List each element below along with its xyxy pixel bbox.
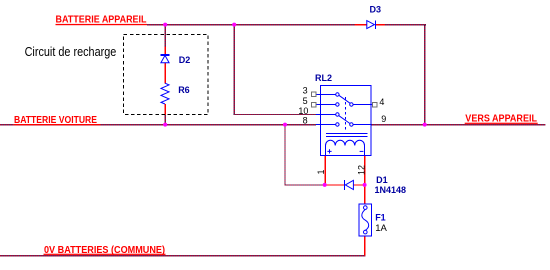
- svg-text:8: 8: [303, 115, 308, 125]
- relay pin 4 contact line and square: [350, 103, 372, 106]
- wire bottom net 0V BATTERIES: left edge to fuse: [0, 255, 365, 256]
- relay pin 5 line and contact: [316, 103, 339, 106]
- diode D3: [367, 20, 376, 28]
- svg-text:D2: D2: [179, 55, 191, 65]
- wire stub red right of D3: [376, 24, 385, 25]
- junction dot middle net / R6 branch: [163, 123, 167, 127]
- relay armature contact 3-4: [339, 95, 350, 103]
- wire top-right corner vertical down to VERS APPAREIL node: [424, 24, 425, 125]
- svg-text:4: 4: [379, 97, 384, 107]
- wire stub red below R6: [165, 104, 166, 115]
- relay coil minus mark: [360, 150, 364, 152]
- wire D1 anode stub red: [353, 184, 365, 185]
- svg-text:Circuit de recharge: Circuit de recharge: [25, 45, 117, 59]
- junction dot top net / pin10 branch: [232, 23, 236, 27]
- svg-text:3: 3: [303, 86, 308, 96]
- relay coil lead left: [325, 146, 327, 156]
- pin 4 unconnected square: [372, 102, 377, 107]
- fuse F1 body: [359, 204, 371, 236]
- wire branch coil: vertical from middle net down: [284, 124, 285, 185]
- junction dot D1 cathode / pin 12 / fuse: [363, 183, 367, 187]
- relay RL2 body: [321, 86, 372, 156]
- net label BATTERIE APPAREIL: [56, 15, 148, 26]
- relay pin 3 line and contact: [316, 93, 339, 96]
- wire D1 cathode stub red: [325, 184, 344, 185]
- svg-text:10: 10: [298, 106, 308, 116]
- svg-text:1: 1: [316, 169, 326, 174]
- relay pin 8 line and contact: [316, 123, 339, 126]
- wire relay pin 12 red: [364, 155, 365, 185]
- relay pin 9 contact line: [350, 123, 371, 126]
- pin 3 unconnected square: [312, 92, 317, 97]
- svg-text:VERS APPAREIL: VERS APPAREIL: [465, 113, 537, 124]
- junction dot D1 anode / pin 1: [323, 183, 327, 187]
- wire branch D2/R6 lower maroon into middle net: [165, 115, 166, 125]
- wire branch coil: horizontal to D1 anode node: [284, 184, 324, 185]
- relay coil lead right: [364, 146, 366, 156]
- diode D2: [161, 55, 170, 63]
- relay pin 10 line and contact: [316, 113, 339, 116]
- svg-text:5: 5: [303, 96, 308, 106]
- relay mechanical link dashed: [345, 97, 347, 132]
- svg-text:RL2: RL2: [315, 73, 332, 83]
- relay coil plus mark: [327, 149, 331, 153]
- wire top net BATTERIE APPAREIL: label underline to D3: [147, 24, 355, 25]
- svg-text:1A: 1A: [375, 223, 387, 234]
- wire middle right net VERS APPAREIL: relay pin 9 to right edge: [371, 124, 546, 125]
- wire branch D2/R6 upper: from top net dot down: [165, 24, 166, 47]
- svg-text:12: 12: [357, 165, 367, 175]
- relay coil core lines: [326, 134, 368, 137]
- wire red from D1 node down to fuse F1: [364, 184, 365, 204]
- wire red from fuse F1 down to bottom net: [364, 236, 365, 256]
- wire branch relay pin10: horizontal to relay: [234, 114, 316, 115]
- net label VERS APPAREIL: [465, 113, 538, 124]
- junction dot VERS APPAREIL / D3 branch: [423, 123, 427, 127]
- wire branch relay pin10: vertical from top net: [234, 24, 235, 114]
- svg-text:D3: D3: [370, 5, 382, 15]
- svg-text:F1: F1: [375, 213, 386, 223]
- wire relay pin 1 red: [325, 155, 326, 185]
- svg-text:D1: D1: [376, 175, 388, 185]
- dashed box circuit de recharge: [124, 34, 208, 114]
- junction dot top net / D2 branch: [163, 23, 167, 27]
- junction dot middle net / coil branch: [283, 123, 287, 127]
- pin 5 unconnected square: [312, 102, 317, 107]
- net label BATTERIE VOITURE: [14, 115, 101, 126]
- diode D1: [345, 180, 354, 190]
- svg-text:9: 9: [381, 114, 386, 124]
- relay armature contact 10-9: [339, 116, 350, 124]
- wire top net: D3 cathode to top-right corner: [385, 24, 426, 25]
- wire middle net BATTERIE VOITURE: left edge to relay pin 8: [0, 124, 316, 125]
- wire stub red left of D3: [355, 24, 367, 25]
- wire stub red above D2: [165, 47, 166, 55]
- net label 0V BATTERIES (COMMUNE): [44, 245, 166, 256]
- resistor R6: [161, 83, 169, 104]
- relay coil windings: [326, 140, 365, 145]
- wire stub red between D2 and R6: [165, 63, 166, 84]
- svg-text:R6: R6: [178, 85, 190, 95]
- svg-text:1N4148: 1N4148: [375, 185, 407, 195]
